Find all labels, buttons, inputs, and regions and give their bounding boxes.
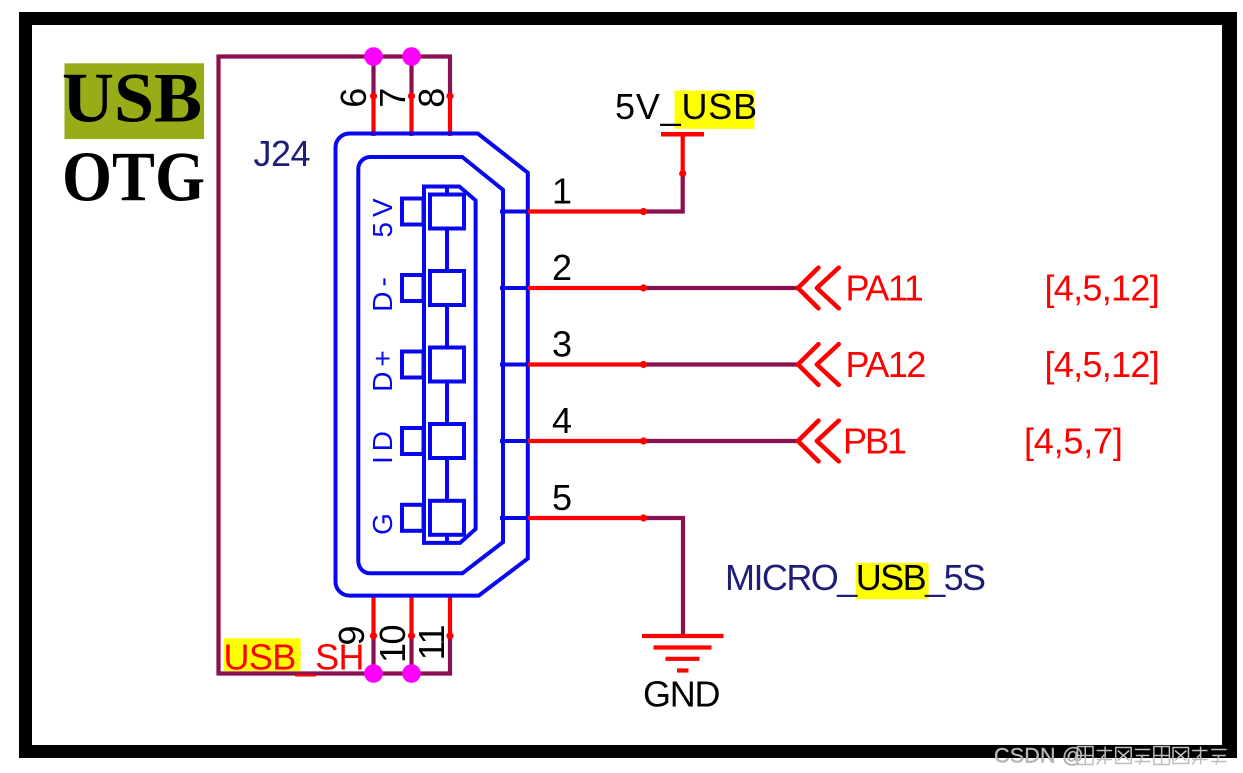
- svg-text:USB: USB: [62, 60, 202, 138]
- svg-text:CSDN @: CSDN @: [994, 744, 1084, 768]
- connector J24 pad center line: [445, 187, 449, 543]
- junction dot pin10 red: [408, 632, 415, 639]
- svg-text:GND: GND: [643, 674, 720, 715]
- svg-text:5V_USB: 5V_USB: [615, 86, 758, 127]
- junction dot pin6 red: [370, 92, 377, 99]
- pin3 blue stub: [500, 363, 528, 367]
- small pad pin3: [402, 352, 424, 378]
- wire pin5 purple segment: [644, 518, 684, 636]
- wire pin10 riser purple: [409, 636, 413, 674]
- junction dot pin6 magenta: [364, 47, 383, 66]
- junction dot pin4 wire red: [640, 437, 647, 444]
- svg-text:11: 11: [411, 626, 452, 661]
- svg-text:10: 10: [372, 626, 413, 664]
- small pad pin1: [402, 199, 424, 225]
- junction dot pin11 red: [446, 632, 453, 639]
- junction dot pin7 red: [408, 92, 415, 99]
- wire pin6 stub red: [371, 96, 375, 137]
- wire pin11 riser purple: [448, 636, 452, 676]
- port chevron PB1: [798, 421, 839, 462]
- title USB (green highlight): [62, 60, 204, 140]
- wire shield bottom horizontal segment: [219, 671, 453, 675]
- svg-text:PA12: PA12: [846, 344, 926, 385]
- junction dot pin1 wire red: [640, 208, 647, 215]
- svg-text:J24: J24: [254, 133, 311, 174]
- svg-text:4: 4: [552, 400, 572, 441]
- port chevron PA11: [798, 268, 839, 309]
- net USB_SH shield wire: top horizontal segment: [219, 54, 453, 58]
- wire pin9 riser purple: [371, 636, 375, 674]
- junction dot pin3 wire red: [640, 361, 647, 368]
- junction dot pin10 magenta: [402, 664, 421, 683]
- net label USB_SH: [224, 637, 364, 678]
- junction dot 5V riser red: [679, 170, 686, 177]
- wire pin8 drop purple: [448, 57, 452, 97]
- wire pin1 red segment: [528, 209, 644, 213]
- wire pin1 purple segment: [644, 173, 683, 212]
- pad square pin1: [430, 195, 464, 229]
- svg-text:5: 5: [552, 477, 572, 518]
- wire pin10 stub red: [409, 596, 413, 636]
- power net label 5V_USB: [615, 86, 758, 129]
- small pad pin2: [402, 275, 424, 301]
- wire 5V riser red: [681, 134, 685, 173]
- connector J24 inner shell: [358, 157, 503, 573]
- svg-text:[4,5,7]: [4,5,7]: [1024, 421, 1123, 462]
- svg-text:2: 2: [552, 247, 572, 288]
- power symbol 5V_USB bar: [661, 132, 704, 137]
- junction dot pin9 red: [370, 632, 377, 639]
- svg-text:PA11: PA11: [846, 268, 923, 309]
- ground symbol GND: [642, 636, 724, 671]
- small pad pin5: [402, 505, 424, 531]
- wire pin7 drop purple: [409, 57, 413, 97]
- junction dot pin8 red: [446, 92, 453, 99]
- wire pin11 stub red: [448, 596, 452, 636]
- svg-text:1: 1: [552, 171, 572, 212]
- pad square pin3: [430, 348, 464, 382]
- wire pin7 stub red: [409, 96, 413, 137]
- pin2 blue stub: [500, 286, 528, 290]
- junction dot pin7 magenta: [402, 47, 421, 66]
- pad square pin4: [430, 424, 464, 458]
- svg-text:5V: 5V: [367, 193, 398, 237]
- svg-text:3: 3: [552, 324, 572, 365]
- junction dot pin2 wire red: [640, 284, 647, 291]
- pad square pin5: [430, 501, 464, 535]
- junction dot pin9 magenta: [364, 664, 383, 683]
- svg-text:[4,5,12]: [4,5,12]: [1045, 344, 1160, 385]
- svg-text:ID: ID: [367, 426, 398, 464]
- sheet border right edge: [1222, 12, 1237, 758]
- svg-text:OTG: OTG: [62, 139, 205, 217]
- svg-text:D-: D-: [367, 272, 398, 312]
- svg-text:PB1: PB1: [843, 421, 906, 462]
- wire pin8 stub red: [448, 96, 452, 137]
- svg-text:8: 8: [411, 88, 452, 108]
- pin4 blue stub: [500, 439, 528, 443]
- net label MICRO_USB_5S: [725, 557, 985, 599]
- port chevron PA12: [798, 344, 839, 385]
- pad square pin2: [430, 271, 464, 305]
- connector J24 pad strip outline: [424, 187, 476, 543]
- junction dot pin5 wire red: [640, 514, 647, 521]
- svg-text:MICRO_USB_5S: MICRO_USB_5S: [725, 557, 985, 598]
- svg-text:6: 6: [333, 88, 374, 108]
- wire pin2 red segment: [528, 286, 644, 290]
- wire pin4 purple segment: [644, 439, 799, 443]
- wire pin3 purple segment: [644, 362, 799, 366]
- svg-text:G: G: [367, 508, 398, 535]
- wire pin2 purple segment: [644, 286, 799, 290]
- wire shield left vertical segment: [216, 55, 220, 676]
- wire pin3 red segment: [528, 362, 644, 366]
- watermark CSDN: [994, 744, 1227, 768]
- svg-text:7: 7: [372, 88, 413, 108]
- pin5 blue stub: [500, 516, 528, 520]
- svg-text:[4,5,12]: [4,5,12]: [1045, 268, 1160, 309]
- svg-text:D+: D+: [367, 345, 398, 392]
- small pad pin4: [402, 428, 424, 454]
- connector J24 outer shell: [336, 134, 528, 596]
- svg-text:9: 9: [331, 626, 372, 646]
- wire pin9 stub red: [371, 596, 375, 636]
- wire pin6 drop purple: [371, 57, 375, 97]
- pin1 blue stub: [500, 210, 528, 214]
- wire pin5 red segment: [528, 516, 644, 520]
- wire pin4 red segment: [528, 439, 644, 443]
